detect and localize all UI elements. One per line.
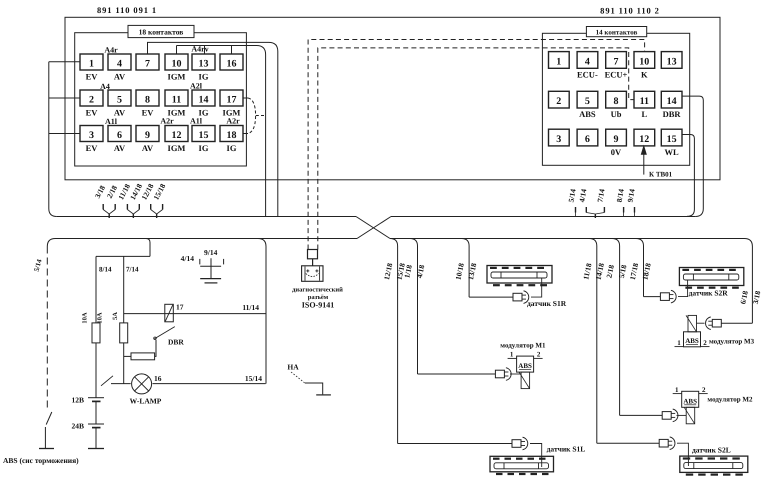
svg-text:ABS: ABS — [683, 397, 697, 405]
wire tick — [126, 204, 128, 210]
wire from relay blade to resistor — [155, 340, 156, 356]
wire arrow into pin 12 (X2), to K TB01 — [643, 148, 645, 175]
pin box 6 of connector X2 — [577, 129, 598, 146]
wire merge chevron — [103, 210, 109, 215]
svg-text:2: 2 — [537, 351, 541, 359]
svg-text:4: 4 — [585, 56, 590, 67]
pin box 8 of connector X2 — [606, 91, 627, 108]
svg-text:модулятор М3: модулятор М3 — [709, 338, 755, 346]
wire from pin 2 (X1) to left trunk — [49, 97, 80, 99]
svg-text:модулятор М1: модулятор М1 — [500, 342, 546, 350]
wire M3 solenoid to plug arc — [697, 322, 705, 324]
svg-text:18 контактов: 18 контактов — [139, 28, 184, 37]
ECU (electronic control unit) outline — [65, 17, 720, 180]
svg-text:IG: IG — [199, 72, 209, 82]
wire plug to M1 solenoid — [510, 373, 521, 375]
svg-text:12: 12 — [172, 130, 182, 141]
svg-text:1: 1 — [510, 351, 514, 359]
wire (dashed): L-line from diagnostic connector to pin 11 X2 — [318, 48, 634, 250]
ignition switch blade at lamp — [101, 376, 113, 386]
relay switch blade — [155, 327, 175, 339]
pin box 9 of connector X2 — [606, 129, 627, 146]
svg-text:15: 15 — [199, 130, 209, 141]
svg-text:2: 2 — [556, 96, 561, 107]
wire from pin 10 (X1) up — [176, 46, 178, 55]
svg-text:8/14: 8/14 — [99, 266, 112, 274]
svg-text:2: 2 — [89, 95, 94, 106]
sensor bar — [494, 463, 549, 469]
svg-text:AV: AV — [114, 108, 126, 118]
wire from S1L plug to rotor bar — [530, 444, 542, 468]
svg-text:AV: AV — [114, 72, 126, 82]
wire 11/18/14/18 drop — [589, 239, 597, 444]
svg-text:ABS: ABS — [518, 362, 532, 370]
wire 7/14 vertical — [123, 256, 125, 323]
modulator M2 ABS valve box — [682, 391, 699, 407]
wire from pin 1 (X1) to left trunk — [49, 61, 80, 63]
pin box 7 of connector X1 — [136, 54, 159, 70]
svg-text:12: 12 — [639, 134, 649, 145]
pin box 11 of connector X2 — [634, 91, 655, 108]
wire: left trunk down to harness bus — [49, 62, 57, 217]
pin box 18 of connector X1 — [220, 126, 243, 142]
harness bus upper line (right) — [391, 216, 695, 218]
wire to modulator M2 plug — [620, 414, 663, 416]
wire from pin 3 (X1) to left trunk — [49, 133, 80, 135]
wire: pins 10/13/16 collector to bus — [177, 46, 266, 217]
wire lamp to riser 15/14 — [153, 383, 266, 385]
harness bus lower line (right) — [390, 239, 752, 247]
pin box 13 of connector X1 — [192, 54, 215, 70]
riser wire from bus to fuse feed — [146, 239, 150, 257]
twisted-pair brace (pins 17,18) — [248, 98, 256, 134]
pin box 13 of connector X2 — [661, 52, 682, 69]
svg-text:5: 5 — [585, 96, 590, 107]
svg-text:1: 1 — [677, 339, 681, 347]
wire merge chevron — [586, 213, 595, 215]
pin box 2 of connector X1 — [80, 90, 103, 106]
connector X2 tab label "14 контактов" — [586, 27, 646, 37]
svg-text:IG: IG — [227, 143, 237, 153]
wire merge chevron — [151, 210, 157, 215]
wire 1/18/4/18 drop — [410, 239, 418, 375]
pin box 4 of connector X2 — [577, 52, 598, 69]
pin box 15 of connector X1 — [192, 126, 215, 142]
svg-text:A2r: A2r — [160, 117, 174, 126]
relay contact diagonal — [165, 305, 173, 322]
svg-text:2: 2 — [702, 386, 706, 394]
svg-text:A4: A4 — [100, 82, 110, 91]
fuse feed wire — [96, 255, 150, 257]
fuse F2 5A — [120, 323, 128, 343]
connector X1 body (18 pin) — [75, 33, 247, 166]
svg-text:датчик S1R: датчик S1R — [527, 299, 567, 308]
wire below switch — [44, 427, 46, 449]
svg-text:3: 3 — [556, 134, 561, 145]
svg-text:891 110 091 1: 891 110 091 1 — [97, 5, 157, 15]
pin box 7 of connector X2 — [606, 52, 627, 69]
terminal bar — [88, 448, 104, 450]
svg-text:7: 7 — [145, 59, 150, 70]
svg-text:8: 8 — [614, 96, 619, 107]
svg-text:1: 1 — [89, 59, 94, 70]
wire to sensor S2L plug — [597, 442, 659, 444]
svg-text:DBR: DBR — [168, 338, 184, 347]
svg-text:11/14: 11/14 — [242, 303, 259, 312]
wire 2/18/5/18 drop — [612, 239, 620, 416]
svg-text:диагностический: диагностический — [292, 287, 343, 294]
svg-text:W-LAMP: W-LAMP — [130, 397, 162, 406]
svg-text:10A: 10A — [97, 312, 104, 324]
battery 24V plates — [88, 423, 104, 425]
battery link wire — [95, 401, 97, 424]
sensor connector plug — [662, 412, 671, 420]
svg-text:L: L — [641, 109, 647, 119]
svg-text:9: 9 — [145, 130, 150, 141]
pin 1 of M1 — [508, 357, 517, 359]
svg-text:A1l: A1l — [105, 117, 118, 126]
svg-text:модулятор М2: модулятор М2 — [707, 396, 753, 404]
pin box 12 of connector X1 — [165, 126, 188, 142]
sensor connector plug — [659, 439, 668, 447]
wire plug to M2 solenoid — [677, 414, 687, 416]
sensor exciter ring (toothed rotor) — [679, 268, 743, 286]
terminal bar — [39, 448, 54, 450]
solenoid of M1 — [521, 372, 530, 389]
svg-text:AV: AV — [142, 143, 154, 153]
wire: plug cap to diagnostic connector — [312, 259, 314, 266]
pin box 14 of connector X1 — [192, 90, 215, 106]
wire resistor to 7/14 line — [124, 355, 131, 357]
svg-text:14 контактов: 14 контактов — [596, 29, 638, 37]
svg-text:5: 5 — [117, 95, 122, 106]
pin 2 of M3 — [701, 346, 710, 348]
svg-text:15: 15 — [667, 134, 677, 145]
pin box 11 of connector X1 — [165, 90, 188, 106]
svg-text:ECU-: ECU- — [577, 69, 598, 79]
pin box 5 of connector X2 — [577, 91, 598, 108]
warning lamp W-LAMP (16) — [111, 383, 131, 385]
sensor connector plug — [495, 370, 504, 378]
svg-text:15/14: 15/14 — [245, 374, 262, 383]
sensor bar — [683, 274, 738, 280]
relay contact 17 (DBR) — [165, 304, 174, 322]
svg-text:IGM: IGM — [168, 72, 186, 82]
pin box 6 of connector X1 — [108, 126, 131, 142]
wire to modulator M1 plug — [418, 373, 496, 375]
sensor exciter ring (toothed rotor) — [680, 456, 748, 472]
harness bus lower line (left) — [47, 239, 357, 247]
svg-text:13: 13 — [199, 59, 209, 70]
wire from pin 16 (X1) up — [231, 46, 233, 55]
wire from pin 7 (X1) up and right — [148, 42, 278, 216]
svg-text:3: 3 — [89, 130, 94, 141]
connector socket arc — [673, 409, 678, 422]
svg-text:IG: IG — [199, 143, 209, 153]
wire from pin 13 (X1) up — [204, 46, 206, 55]
svg-text:16: 16 — [227, 59, 237, 70]
pin box 3 of connector X1 — [80, 126, 103, 142]
svg-text:датчик S1L: датчик S1L — [547, 445, 586, 454]
wire from S1R rotor bar down to plug — [531, 278, 542, 297]
svg-text:11: 11 — [640, 96, 649, 107]
connector socket arc — [523, 437, 528, 450]
svg-text:891 110 110 2: 891 110 110 2 — [600, 6, 660, 16]
diagnostic connector plug cap — [308, 250, 318, 259]
svg-text:7: 7 — [614, 56, 619, 67]
svg-text:13: 13 — [667, 56, 677, 67]
svg-text:14: 14 — [667, 96, 677, 107]
pin box 16 of connector X1 — [220, 54, 243, 70]
sensor connector plug — [513, 293, 522, 301]
pin box 1 of connector X2 — [549, 52, 570, 69]
connector socket arc — [671, 290, 676, 303]
sensor bar — [491, 272, 547, 278]
pin box 2 of connector X2 — [549, 91, 570, 108]
svg-text:ECU+: ECU+ — [605, 69, 628, 79]
wire merge chevron — [127, 210, 133, 215]
svg-text:8: 8 — [145, 95, 150, 106]
svg-text:2: 2 — [703, 339, 707, 347]
wire tick — [585, 207, 587, 213]
pin box 4 of connector X1 — [108, 54, 131, 70]
svg-text:ISO-9141: ISO-9141 — [302, 301, 334, 310]
svg-text:ABS: ABS — [579, 109, 596, 119]
svg-text:1: 1 — [556, 56, 561, 67]
sensor connector plug — [512, 440, 521, 448]
wire to sensor S1L plug — [398, 443, 512, 445]
pin box 5 of connector X1 — [108, 90, 131, 106]
svg-text:WL: WL — [665, 147, 680, 157]
svg-text:10: 10 — [639, 56, 649, 67]
wire from fuse F2 down to lamp node — [123, 343, 125, 384]
pin box 8 of connector X1 — [136, 90, 159, 106]
riser wire from bus down to lamp wire — [258, 239, 266, 384]
wire from S2R rotor bar down to plug — [678, 280, 688, 297]
pin 1 of M2 — [673, 393, 682, 395]
connector socket arc — [670, 437, 675, 450]
modulator M1 ABS valve box — [517, 356, 534, 372]
sensor exciter ring (toothed rotor) — [490, 456, 554, 472]
connector socket arc — [506, 368, 511, 381]
svg-text:K: K — [641, 69, 648, 79]
svg-text:24В: 24В — [71, 422, 84, 431]
wire from S2L plug to rotor bar — [677, 443, 688, 466]
wire tick — [102, 204, 104, 210]
svg-text:6: 6 — [585, 134, 590, 145]
ground bars — [200, 278, 221, 280]
pin box 12 of connector X2 — [634, 129, 655, 146]
svg-text:7/14: 7/14 — [126, 266, 139, 274]
svg-text:Ub: Ub — [611, 109, 622, 119]
wire from pin 14 (X2/DBR) right and down to bus — [682, 96, 703, 216]
svg-text:EV: EV — [86, 72, 99, 82]
wire (dashed): ABS info lamp switch line 5/14 — [46, 247, 48, 412]
svg-text:ABS: ABS — [685, 337, 699, 345]
svg-text:датчик S2R: датчик S2R — [689, 289, 729, 298]
svg-text:ABS (сис торможения): ABS (сис торможения) — [3, 456, 79, 465]
relay wire 11/14 — [124, 313, 266, 315]
svg-text:11: 11 — [172, 95, 181, 106]
connector X1 tab label "18 контактов" — [128, 25, 194, 37]
connector socket arc — [524, 291, 529, 304]
svg-text:14: 14 — [199, 95, 209, 106]
harness bus upper line (left) — [57, 216, 356, 218]
wire to sensor S1R plug — [469, 296, 513, 298]
wire tick — [623, 207, 625, 213]
svg-text:4: 4 — [117, 59, 122, 70]
wire tick — [575, 207, 577, 213]
switch blade (ABS info switch) — [46, 412, 52, 425]
svg-text:16: 16 — [154, 374, 162, 383]
svg-text:A2r: A2r — [226, 117, 240, 126]
wire 10/18/13/18 drop — [462, 239, 470, 298]
diagnostic connector ISO-9141 — [302, 266, 323, 282]
pin box 15 of connector X2 — [661, 129, 682, 146]
wire 17/18/18/18 drop — [636, 239, 644, 297]
svg-text:A2l: A2l — [190, 82, 203, 91]
wire stub from pin 18 (X1) — [243, 133, 248, 135]
wire from pin 15 (X2/WL) right and down to bus — [682, 135, 694, 217]
svg-text:0V: 0V — [611, 147, 622, 157]
svg-text:12В: 12В — [71, 396, 84, 405]
wire tick — [150, 204, 152, 210]
pin box 14 of connector X2 — [661, 91, 682, 108]
pin box 9 of connector X1 — [136, 126, 159, 142]
pin box 3 of connector X2 — [549, 129, 570, 146]
connector X2 body (14 pin) — [542, 33, 689, 165]
wire tick — [634, 207, 636, 213]
svg-text:К ТВ01: К ТВ01 — [649, 171, 673, 179]
svg-text:10: 10 — [172, 59, 182, 70]
bus crossover X — [356, 217, 390, 239]
svg-text:10A: 10A — [82, 312, 89, 324]
wire to sensor S2R plug — [644, 296, 661, 298]
wire (dashed): K-line from diagnostic connector to pin 10 X2 — [308, 40, 644, 250]
solenoid of M2 — [686, 407, 695, 424]
wire 12/18/15/18 drop — [390, 239, 398, 444]
wire stub from pin 17 (X1) — [243, 97, 248, 99]
solenoid of M3 — [688, 315, 697, 331]
wire: twisted pair tail — [256, 115, 266, 117]
svg-text:9: 9 — [614, 134, 619, 145]
diagnostic connector pins — [306, 270, 309, 272]
svg-text:9/14: 9/14 — [204, 248, 218, 257]
wire 6/18,3/18 riser to modulator M3 — [751, 247, 753, 324]
svg-text:1: 1 — [675, 386, 679, 394]
battery 12V plates — [88, 397, 104, 399]
svg-text:EV: EV — [86, 108, 99, 118]
svg-text:IGM: IGM — [168, 143, 186, 153]
svg-text:5A: 5A — [112, 312, 119, 320]
svg-text:EV: EV — [86, 143, 99, 153]
sensor bar — [684, 463, 743, 469]
svg-text:EV: EV — [142, 108, 155, 118]
sensor exciter ring (toothed rotor) — [487, 266, 552, 284]
svg-text:НА: НА — [287, 363, 299, 372]
svg-text:DBR: DBR — [663, 109, 682, 119]
sensor connector plug — [660, 293, 669, 301]
fuse F1 10A — [92, 323, 100, 343]
pin box 17 of connector X1 — [220, 90, 243, 106]
wire from fuse F1 to battery — [95, 343, 97, 398]
svg-text:4/14: 4/14 — [181, 254, 195, 263]
svg-text:датчик S2L: датчик S2L — [692, 446, 731, 455]
svg-text:17: 17 — [176, 303, 184, 312]
pin 2 of M2 — [699, 393, 708, 395]
pin box 10 of connector X2 — [634, 52, 655, 69]
pin 1 of M3 — [675, 346, 684, 348]
modulator M3 — [684, 332, 701, 347]
pin box 1 of connector X1 — [80, 54, 103, 70]
ground stem — [210, 258, 212, 278]
pin 2 of M1 — [534, 357, 543, 359]
pin box 10 of connector X1 — [165, 54, 188, 70]
resistor (lamp test) — [131, 353, 155, 360]
svg-text:6: 6 — [117, 130, 122, 141]
svg-text:17: 17 — [227, 95, 237, 106]
svg-text:AV: AV — [114, 143, 126, 153]
wire battery to terminal — [95, 428, 97, 449]
M3 plug (mirrored) — [712, 319, 721, 327]
svg-text:A1l: A1l — [190, 117, 203, 126]
svg-text:18: 18 — [227, 130, 237, 141]
svg-text:A4r: A4r — [104, 46, 118, 55]
